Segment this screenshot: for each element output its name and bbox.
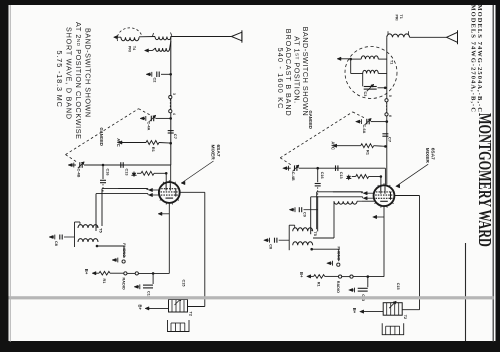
svg-text:R1: R1	[366, 150, 371, 156]
svg-text:T1: T1	[399, 15, 403, 19]
svg-text:6: 6	[388, 115, 392, 117]
svg-text:PRI: PRI	[127, 46, 131, 52]
svg-text:C13: C13	[339, 172, 343, 179]
svg-text:C3: C3	[363, 92, 367, 97]
svg-text:T5: T5	[313, 231, 318, 236]
svg-text:C13: C13	[125, 169, 129, 176]
svg-text:B+: B+	[299, 272, 304, 278]
svg-text:T5: T5	[99, 228, 104, 233]
svg-text:MONTGOMERY WARD: MONTGOMERY WARD	[474, 113, 493, 247]
svg-text:4: 4	[172, 113, 176, 115]
svg-text:6SA7: 6SA7	[215, 145, 221, 157]
svg-text:RADIO: RADIO	[336, 281, 340, 293]
svg-text:T2: T2	[189, 312, 193, 316]
svg-text:BAND-SWITCH SHOWN: BAND-SWITCH SHOWN	[84, 28, 93, 118]
svg-text:6SA7: 6SA7	[430, 148, 436, 160]
svg-text:C2: C2	[153, 78, 157, 83]
svg-text:540 - 1600 KC: 540 - 1600 KC	[276, 48, 285, 110]
svg-text:C15: C15	[396, 283, 400, 290]
svg-text:C9: C9	[303, 212, 307, 217]
svg-text:RADIO: RADIO	[122, 278, 126, 290]
svg-text:PRI: PRI	[394, 15, 398, 21]
svg-text:C8: C8	[269, 244, 273, 249]
svg-text:GANGED: GANGED	[99, 128, 104, 146]
svg-text:PHONO: PHONO	[337, 247, 341, 261]
svg-text:C-4B: C-4B	[291, 172, 295, 181]
svg-text:R1: R1	[317, 282, 321, 287]
svg-text:C-4B: C-4B	[77, 169, 81, 178]
svg-text:T4: T4	[132, 46, 136, 50]
svg-text:C-4A: C-4A	[147, 122, 151, 131]
svg-text:B+: B+	[352, 308, 357, 314]
svg-text:C8: C8	[54, 241, 58, 246]
svg-text:5.75 -18.3 MC: 5.75 -18.3 MC	[55, 51, 64, 108]
svg-text:T1: T1	[390, 60, 394, 64]
svg-text:C7: C7	[388, 137, 393, 143]
svg-text:C7: C7	[173, 134, 178, 140]
svg-text:T2: T2	[403, 315, 407, 319]
svg-text:PHONO: PHONO	[122, 243, 126, 257]
svg-text:C16: C16	[320, 172, 324, 179]
svg-text:R1: R1	[151, 147, 156, 153]
svg-text:MIXER: MIXER	[424, 148, 430, 164]
svg-text:C-6A: C-6A	[362, 125, 366, 134]
svg-text:MIXER: MIXER	[209, 145, 215, 161]
svg-text:SHORT WAVE, D BAND: SHORT WAVE, D BAND	[65, 27, 74, 120]
svg-text:MODELS 74WG-2704A,-B,-C: MODELS 74WG-2704A,-B,-C	[470, 5, 477, 113]
svg-text:5: 5	[388, 95, 392, 97]
svg-text:C15: C15	[182, 280, 186, 287]
svg-text:R1: R1	[102, 279, 106, 284]
svg-text:C16: C16	[106, 169, 110, 176]
svg-text:3: 3	[172, 93, 176, 95]
svg-text:B+: B+	[138, 305, 143, 311]
svg-text:B+: B+	[84, 269, 89, 275]
